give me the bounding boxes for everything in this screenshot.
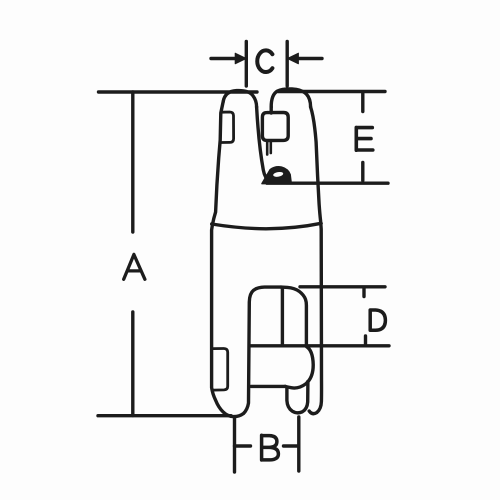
pin right cap [285, 347, 313, 389]
slot bottom dark blob [262, 167, 291, 184]
dim E lower reference line [267, 181, 388, 184]
dim E tick upper [361, 94, 364, 112]
pin bottom edge [251, 385, 285, 388]
dim B right tick [297, 417, 300, 471]
dim D upper tick [362, 288, 365, 297]
body junction line [212, 223, 322, 229]
dim A line lower segment [131, 312, 134, 416]
upper pin slot rectangle on left prong [221, 112, 233, 143]
dim C right tick [286, 42, 289, 87]
dim D lower reference line + pin top edge [251, 344, 389, 347]
dim A line upper segment [131, 92, 134, 232]
lower pin slot rectangle on left leg [213, 349, 227, 391]
left prong outer edge + body left edge + bottom left foot + jaw left edge + jaw top-left corner [212, 102, 281, 417]
dim B left tick [233, 418, 236, 472]
jaw inner depth line [281, 288, 284, 345]
dim C right arrowhead [288, 53, 299, 64]
latch block in fork gap [262, 113, 288, 141]
dim C left arrowhead [235, 53, 246, 64]
dim B left stub [235, 444, 251, 447]
left prong slot wall (right edge) [257, 107, 270, 182]
top reference line left segment [99, 90, 258, 93]
jaw top-right corner and right front edge [281, 287, 306, 345]
label E [356, 127, 373, 150]
dim C right arrow [294, 57, 323, 60]
left prong dome [223, 91, 256, 107]
label B [262, 435, 279, 460]
top reference line right segment [278, 90, 385, 93]
right prong left edge upper stub [270, 107, 273, 113]
dim C left arrow [211, 57, 240, 60]
jaw inner slot U below pin [287, 382, 308, 413]
blob white notch [273, 171, 284, 177]
dim C left tick [245, 42, 248, 87]
label D [370, 310, 385, 330]
dim D lower tick [364, 336, 367, 345]
dim B right stub [284, 444, 299, 447]
bottom reference line [98, 414, 231, 417]
right prong dome [271, 89, 310, 107]
label C [257, 50, 272, 72]
slot wall below block right [269, 141, 272, 154]
label A [124, 255, 145, 280]
dim D upper reference line [300, 285, 385, 288]
right prong outer edge + body right edge + jaw outer right edge + right foot [309, 107, 321, 414]
dim E tick lower [361, 163, 364, 181]
slot wall below block left [266, 141, 269, 155]
